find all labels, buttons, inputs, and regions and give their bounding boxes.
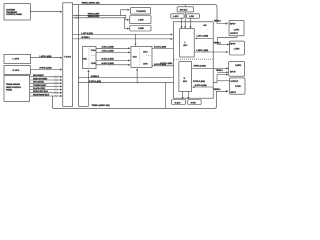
- svg-text:R GPS-1 (429): R GPS-1 (429): [89, 80, 101, 83]
- svg-text:A ADC-1 (429): A ADC-1 (429): [102, 50, 114, 53]
- svg-text:GEAR STOWED: GEAR STOWED: [33, 77, 48, 80]
- svg-text:ADC: ADC: [183, 44, 188, 47]
- svg-text:INPUT: INPUT: [230, 72, 236, 74]
- svg-text:R PFD-1 (429): R PFD-1 (429): [193, 80, 205, 83]
- svg-text:R IRU: R IRU: [191, 102, 197, 104]
- svg-text:GS CANCEL: GS CANCEL: [33, 81, 45, 84]
- svg-text:L PFD: L PFD: [234, 30, 240, 32]
- svg-text:TAWS AUDIO: TAWS AUDIO: [88, 15, 100, 18]
- svg-text:FLAPS OVRD: FLAPS OVRD: [33, 87, 46, 90]
- svg-text:B ADC-1 (429): B ADC-1 (429): [102, 58, 114, 61]
- svg-text:CH A: CH A: [91, 49, 96, 52]
- svg-text:DCU: DCU: [133, 57, 138, 59]
- svg-text:ADC: ADC: [183, 80, 188, 83]
- svg-text:ADC: ADC: [83, 57, 88, 60]
- svg-text:INPUT: INPUT: [230, 92, 236, 94]
- svg-text:TERM-1 (ARINC 429): TERM-1 (ARINC 429): [92, 104, 110, 107]
- svg-text:PANEL: PANEL: [6, 88, 13, 91]
- svg-text:R MFD-1 (429): R MFD-1 (429): [194, 65, 207, 68]
- svg-text:TABS/LANDING: TABS/LANDING: [6, 83, 20, 86]
- svg-text:L NAV: L NAV: [138, 18, 144, 21]
- svg-text:R PFD: R PFD: [235, 86, 241, 88]
- svg-text:CH B: CH B: [91, 63, 96, 65]
- svg-text:INPUT: INPUT: [230, 24, 236, 26]
- svg-text:R GPS-1 (429): R GPS-1 (429): [40, 67, 52, 70]
- svg-text:R ATC-1 (429): R ATC-1 (429): [195, 84, 207, 87]
- svg-text:TAWS: TAWS: [64, 56, 71, 59]
- svg-text:OUTPUT: OUTPUT: [230, 33, 239, 35]
- svg-text:CONTROL PANEL: CONTROL PANEL: [6, 13, 23, 16]
- svg-text:L IRU: L IRU: [189, 16, 194, 18]
- svg-text:GEAR CONTROL: GEAR CONTROL: [6, 86, 22, 89]
- svg-text:CH B: CH B: [143, 63, 148, 65]
- svg-text:ALTIMS-1: ALTIMS-1: [91, 75, 100, 78]
- svg-text:TERM-1 (ARINC 429): TERM-1 (ARINC 429): [82, 2, 100, 5]
- svg-text:L ATC-1 (429): L ATC-1 (429): [197, 35, 209, 38]
- svg-text:TERM-1: TERM-1: [214, 89, 222, 91]
- svg-text:MUD MGMT: MUD MGMT: [33, 75, 44, 77]
- svg-text:TCAS/TXD: TCAS/TXD: [136, 10, 146, 13]
- svg-text:OUTPUT: OUTPUT: [230, 81, 239, 83]
- svg-text:R ADC: R ADC: [175, 101, 181, 104]
- svg-text:L GPS: L GPS: [13, 58, 20, 60]
- svg-text:TERM-1: TERM-1: [214, 20, 222, 22]
- svg-text:TERM-1: TERM-1: [214, 42, 222, 44]
- svg-text:ALTIMS-1: ALTIMS-1: [81, 36, 90, 39]
- svg-text:GPS ALT: GPS ALT: [180, 8, 189, 11]
- svg-text:L ATC-1 (429): L ATC-1 (429): [81, 32, 93, 35]
- svg-text:INPUT: INPUT: [230, 43, 236, 45]
- svg-text:A DCU-1 (429): A DCU-1 (429): [154, 46, 166, 49]
- svg-text:B ADC-1 (429): B ADC-1 (429): [102, 62, 114, 65]
- svg-text:TERM-1: TERM-1: [216, 70, 224, 72]
- svg-text:R MFD: R MFD: [235, 65, 242, 67]
- svg-text:R NAV: R NAV: [138, 27, 144, 30]
- svg-text:TOWER RNWY: TOWER RNWY: [33, 85, 47, 87]
- svg-text:WOW RIGHT MLG: WOW RIGHT MLG: [33, 94, 49, 96]
- svg-text:R GPS: R GPS: [13, 70, 20, 72]
- svg-text:L MFD: L MFD: [234, 49, 240, 51]
- svg-text:A ADC-1 (429): A ADC-1 (429): [102, 45, 114, 48]
- svg-text:A DCU-1 (429): A DCU-1 (429): [160, 62, 172, 65]
- svg-text:WOW LEFT MLG: WOW LEFT MLG: [33, 91, 48, 93]
- svg-text:L GPS-1 (429): L GPS-1 (429): [40, 55, 52, 58]
- svg-text:L ADC: L ADC: [173, 15, 179, 18]
- svg-text:L MFD-1 (429): L MFD-1 (429): [196, 49, 208, 52]
- svg-text:CH A: CH A: [143, 51, 148, 54]
